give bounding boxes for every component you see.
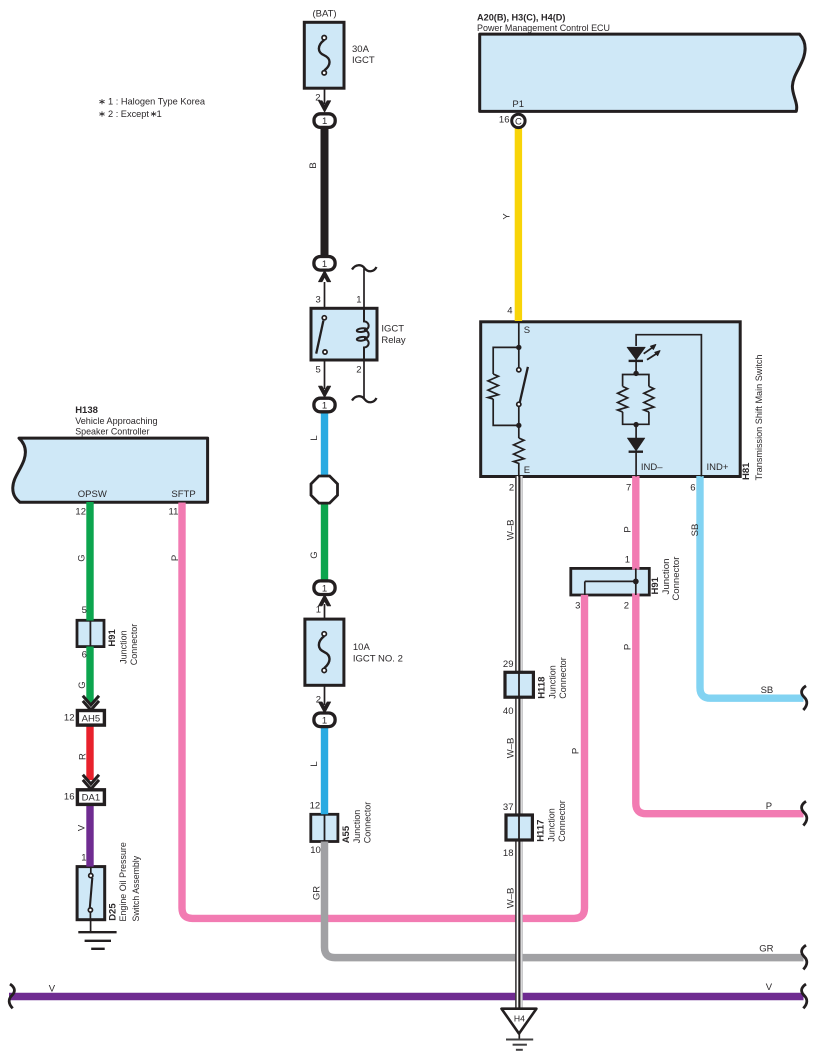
- svg-text:Engine Oil Pressure: Engine Oil Pressure: [118, 842, 129, 921]
- svg-text:SB: SB: [690, 524, 701, 537]
- chevrons above AH5: [83, 696, 99, 710]
- H81 LED top wire: [636, 335, 701, 477]
- relay pin1 wire and break: [352, 265, 377, 308]
- svg-text:40: 40: [503, 706, 514, 717]
- svg-text:AH5: AH5: [82, 713, 100, 724]
- svg-text:1: 1: [322, 401, 327, 412]
- svg-text:30A: 30A: [352, 44, 370, 55]
- svg-text:10A: 10A: [353, 642, 371, 653]
- break squiggle V right end: [802, 984, 807, 1008]
- svg-text:Junction: Junction: [352, 810, 363, 844]
- svg-text:Junction: Junction: [547, 808, 558, 842]
- svg-text:Connector: Connector: [557, 800, 568, 842]
- svg-text:16: 16: [499, 114, 510, 125]
- break squiggle SB end: [802, 686, 807, 710]
- note except: [99, 109, 161, 120]
- arrow down above oval5: [318, 702, 330, 714]
- LED: [627, 345, 660, 361]
- svg-text:SFTP: SFTP: [171, 489, 195, 500]
- svg-text:G: G: [309, 551, 320, 558]
- svg-text:37: 37: [503, 802, 514, 813]
- wire P pink pin7 down to H91 pin1: [632, 476, 639, 570]
- pin circle C: [512, 114, 525, 127]
- svg-text:IND–: IND–: [641, 462, 663, 473]
- svg-text:2: 2: [624, 601, 629, 612]
- svg-text:2: 2: [356, 365, 361, 376]
- svg-text:1: 1: [322, 259, 327, 270]
- H81 internal S wire: [518, 322, 520, 347]
- svg-text:Relay: Relay: [381, 335, 406, 346]
- svg-text:D25: D25: [107, 903, 118, 921]
- svg-text:P: P: [170, 555, 181, 561]
- svg-text:1: 1: [322, 583, 327, 594]
- connector oval 1 (fuse2 to L): [314, 713, 335, 727]
- svg-text:H91: H91: [107, 628, 118, 646]
- svg-text:W–B: W–B: [506, 520, 517, 541]
- svg-text:IGCT: IGCT: [381, 324, 404, 335]
- svg-text:1 : Halogen Type Korea: 1 : Halogen Type Korea: [108, 97, 206, 108]
- svg-text:10: 10: [310, 845, 321, 856]
- svg-text:Transmission Shift Main Switch: Transmission Shift Main Switch: [754, 355, 765, 481]
- relay pin2 wire and break: [352, 360, 377, 402]
- svg-text:GR: GR: [759, 944, 773, 955]
- svg-text:1: 1: [157, 109, 162, 120]
- svg-text:Junction: Junction: [119, 630, 130, 664]
- svg-text:L: L: [309, 435, 320, 440]
- ECU box A20/H3/H4: [480, 34, 805, 111]
- H81 switch box: [481, 322, 741, 477]
- connector oval 1 (B to relay): [314, 257, 335, 271]
- AH5 box: [77, 711, 104, 726]
- svg-text:11: 11: [169, 507, 179, 518]
- svg-text:H4: H4: [514, 1013, 525, 1023]
- junction connector H91 right box: [571, 568, 650, 595]
- svg-text:W–B: W–B: [506, 738, 517, 759]
- break squiggle GR end: [802, 945, 807, 969]
- svg-text:Power Management Control ECU: Power Management Control ECU: [477, 23, 610, 34]
- wire G green octagon to connector: [321, 502, 328, 583]
- svg-text:Speaker Controller: Speaker Controller: [75, 426, 149, 437]
- svg-text:V: V: [49, 983, 56, 994]
- H81 left resistor branch: [488, 347, 519, 425]
- junction connector H118 box: [505, 672, 533, 697]
- svg-text:IGCT NO. 2: IGCT NO. 2: [353, 654, 403, 665]
- D25 switch symbol: [88, 867, 93, 920]
- svg-text:2: 2: [315, 93, 320, 104]
- wire G green H91 to AH5: [86, 647, 93, 703]
- fuse 30A symbol: [319, 36, 330, 76]
- relay switch: [316, 316, 327, 354]
- wire Y yellow P1 to S: [515, 126, 522, 321]
- node dot LED: [633, 371, 638, 376]
- relay coil: [357, 308, 369, 360]
- fuse 10A symbol: [319, 632, 330, 673]
- svg-text:6: 6: [82, 650, 87, 661]
- svg-text:2: 2: [509, 483, 514, 494]
- svg-text:H118: H118: [536, 677, 547, 699]
- node dot S: [516, 345, 521, 350]
- svg-text:3: 3: [316, 294, 321, 305]
- wire V violet bottom bus: [9, 993, 804, 1001]
- svg-text:18: 18: [503, 848, 514, 859]
- svg-text:Junction: Junction: [548, 665, 559, 699]
- wire B black thick: [321, 126, 329, 259]
- note halogen korea: [99, 97, 205, 108]
- svg-text:OPSW: OPSW: [78, 489, 107, 500]
- svg-text:1: 1: [356, 294, 361, 305]
- connector oval 1 (G to fuse2): [314, 581, 335, 595]
- wire R red AH5 to DA1: [86, 725, 93, 780]
- svg-text:H138: H138: [75, 405, 98, 416]
- svg-text:H81: H81: [741, 462, 752, 480]
- svg-text:G: G: [77, 554, 88, 561]
- svg-text:Connector: Connector: [558, 657, 569, 699]
- svg-text:E: E: [524, 465, 530, 476]
- ground D25: [78, 920, 116, 949]
- fuse 10A IGCT NO.2 box: [305, 619, 344, 685]
- svg-text:Connector: Connector: [671, 557, 682, 601]
- svg-text:P1: P1: [512, 99, 524, 110]
- svg-text:Vehicle Approaching: Vehicle Approaching: [75, 416, 157, 427]
- svg-text:Switch Assembly: Switch Assembly: [131, 856, 142, 922]
- connector oval 1 (fuse to B): [314, 114, 335, 128]
- arrow up below oval2: [318, 270, 330, 282]
- wire P pink H91 pin2 down and right: [636, 593, 804, 813]
- ground H4: [502, 1009, 537, 1050]
- wire G green OPSW to H91: [86, 502, 93, 621]
- fuse 30A IGCT box: [304, 22, 344, 88]
- svg-text:B: B: [308, 162, 319, 168]
- junction connector A55 box: [311, 814, 338, 841]
- svg-text:5: 5: [316, 365, 321, 376]
- svg-text:P: P: [622, 644, 633, 650]
- junction connector H117 box: [506, 815, 532, 840]
- svg-text:Junction: Junction: [661, 559, 672, 595]
- LED to node wire: [635, 359, 637, 373]
- svg-text:(BAT): (BAT): [312, 8, 336, 19]
- svg-text:IND+: IND+: [707, 462, 729, 473]
- H81 switch: [517, 347, 528, 425]
- H81 series resistor to E: [514, 425, 524, 476]
- wire P pink SFTP down right and up to H91 pin3: [182, 503, 585, 919]
- wire to fuse2: [324, 604, 326, 619]
- svg-text:P: P: [570, 748, 581, 754]
- DA1 box: [77, 790, 104, 805]
- svg-text:12: 12: [310, 801, 321, 812]
- svg-text:DA1: DA1: [82, 793, 100, 804]
- octagon joint: [311, 476, 338, 503]
- break squiggle V left end: [9, 984, 14, 1008]
- H138 controller box: [13, 438, 208, 502]
- diode: [627, 425, 645, 477]
- wire W-B white black stripe: [515, 476, 523, 1009]
- relay pin5 wire: [324, 360, 326, 389]
- svg-text:2 : Except: 2 : Except: [108, 109, 149, 120]
- svg-text:Connector: Connector: [129, 624, 140, 666]
- svg-text:H117: H117: [536, 820, 547, 842]
- svg-text:W–B: W–B: [506, 888, 517, 909]
- wire L blue fuse2 to A55: [321, 727, 328, 815]
- svg-text:12: 12: [75, 507, 86, 518]
- svg-text:4: 4: [507, 306, 512, 317]
- arrow down above oval3: [318, 386, 330, 398]
- svg-text:C: C: [515, 116, 522, 127]
- relay box IGCT: [311, 308, 377, 360]
- svg-text:1: 1: [625, 555, 630, 566]
- break squiggle P end: [802, 801, 807, 825]
- svg-text:1: 1: [322, 715, 327, 726]
- svg-text:SB: SB: [761, 685, 774, 696]
- svg-text:12: 12: [64, 712, 75, 723]
- wire V violet DA1 to D25: [86, 804, 93, 867]
- wire fuse2 to arrow: [324, 685, 326, 705]
- svg-text:3: 3: [575, 601, 580, 612]
- arrow up below oval4: [318, 594, 330, 606]
- svg-text:V: V: [77, 824, 88, 831]
- svg-text:2: 2: [316, 695, 321, 706]
- svg-text:1: 1: [322, 116, 327, 127]
- svg-text:7: 7: [626, 483, 631, 494]
- wire fuse1 to arrow: [324, 88, 326, 104]
- svg-text:V: V: [766, 982, 773, 993]
- svg-text:R: R: [77, 753, 88, 760]
- wire L blue relay to octagon: [321, 410, 328, 477]
- node dot E branch: [516, 423, 521, 428]
- chevrons above DA1: [83, 775, 99, 789]
- svg-text:16: 16: [64, 792, 75, 803]
- svg-text:GR: GR: [312, 886, 323, 900]
- H91 right internal link: [585, 568, 639, 595]
- D25 switch box: [77, 867, 105, 920]
- svg-text:P: P: [766, 801, 772, 812]
- svg-text:A55: A55: [341, 825, 352, 843]
- connector oval 1 (relay to L): [314, 398, 335, 412]
- node dot below resistors: [633, 422, 638, 427]
- arrow down above oval1: [318, 101, 330, 113]
- svg-text:1: 1: [316, 605, 321, 616]
- wire GR gray A55 down and right: [325, 842, 804, 958]
- svg-text:5: 5: [82, 605, 87, 616]
- svg-text:1: 1: [81, 852, 86, 863]
- junction connector H91 left box: [77, 620, 104, 646]
- svg-text:S: S: [524, 325, 530, 336]
- svg-text:Y: Y: [502, 213, 513, 220]
- parallel resistors: [618, 373, 654, 424]
- svg-text:Connector: Connector: [362, 802, 373, 844]
- svg-text:6: 6: [690, 483, 695, 494]
- svg-text:IGCT: IGCT: [352, 55, 375, 66]
- svg-text:L: L: [309, 761, 320, 766]
- wire SB skyblue pin6 down and right: [700, 476, 804, 698]
- wire arrow to relay pin3: [324, 282, 326, 308]
- svg-text:29: 29: [503, 659, 514, 670]
- svg-text:A20(B), H3(C), H4(D): A20(B), H3(C), H4(D): [477, 12, 565, 23]
- svg-text:P: P: [622, 526, 633, 532]
- svg-text:H91: H91: [650, 576, 661, 594]
- svg-text:G: G: [77, 681, 88, 688]
